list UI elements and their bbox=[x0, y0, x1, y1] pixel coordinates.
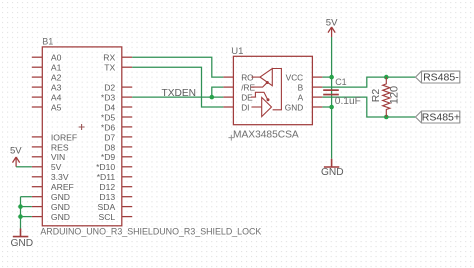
svg-text:C1: C1 bbox=[335, 77, 347, 87]
svg-text:D4: D4 bbox=[104, 102, 115, 112]
svg-text:5V: 5V bbox=[51, 162, 62, 172]
svg-text:RS485-: RS485- bbox=[423, 72, 459, 84]
junction GND rail / pin 3 bbox=[18, 214, 23, 219]
wire GND rail vertical bbox=[20, 197, 22, 229]
svg-text:*D10: *D10 bbox=[96, 162, 115, 172]
net flag RS485- bbox=[416, 71, 460, 83]
wire TXDEN branch to /RE bbox=[212, 87, 224, 97]
svg-text:*D9: *D9 bbox=[101, 152, 116, 162]
wire TX to DI bbox=[132, 67, 223, 107]
resistor R2 bbox=[383, 77, 390, 117]
wire GND pin 2 bbox=[21, 206, 32, 208]
U1 DE enable line and dot bbox=[251, 92, 270, 101]
svg-text:RX: RX bbox=[103, 53, 115, 63]
wire A to RS485+ bbox=[322, 97, 415, 117]
svg-text:*D3: *D3 bbox=[101, 93, 116, 103]
capacitor C1 plates bbox=[323, 89, 339, 95]
svg-text:0.1uF: 0.1uF bbox=[335, 96, 361, 107]
svg-text:TXDEN: TXDEN bbox=[162, 88, 197, 99]
svg-text:RS485+: RS485+ bbox=[422, 111, 460, 123]
B1 right pin name labels bbox=[96, 53, 115, 222]
junction U1 GND / rail bbox=[329, 105, 334, 110]
supply 5V symbol (top right) bbox=[328, 27, 335, 37]
svg-text:ARDUINO_UNO_R3_SHIELDUNO_R3_SH: ARDUINO_UNO_R3_SHIELDUNO_R3_SHIELD_LOCK bbox=[40, 226, 261, 236]
B1 origin cross bbox=[79, 124, 85, 130]
svg-text:A5: A5 bbox=[51, 102, 62, 112]
U1 driver buffer triangle bbox=[252, 97, 272, 116]
svg-text:GND: GND bbox=[51, 202, 70, 212]
wire GND pin 1 bbox=[21, 196, 32, 198]
svg-text:GND: GND bbox=[51, 212, 70, 222]
wire B to RS485- bbox=[322, 77, 415, 87]
svg-text:B1: B1 bbox=[42, 37, 53, 47]
wire GND pin 3 bbox=[21, 216, 32, 218]
junction GND rail / pin 2 bbox=[18, 204, 23, 209]
svg-text:D12: D12 bbox=[99, 182, 115, 192]
wire VCC to rail bbox=[322, 76, 331, 78]
svg-text:A: A bbox=[298, 93, 304, 103]
svg-text:A3: A3 bbox=[51, 83, 62, 93]
svg-text:5V: 5V bbox=[10, 146, 22, 157]
B1 left pin name labels bbox=[51, 53, 77, 222]
ground symbol (left) bbox=[13, 229, 28, 237]
svg-text:IOREF: IOREF bbox=[51, 132, 77, 142]
junction R2 top bbox=[384, 75, 389, 80]
svg-text:A2: A2 bbox=[51, 73, 62, 83]
svg-text:D13: D13 bbox=[99, 192, 115, 202]
svg-text:GND: GND bbox=[51, 192, 70, 202]
svg-text:*D5: *D5 bbox=[101, 112, 116, 122]
IC U1 MAX3485CSA box bbox=[223, 56, 322, 124]
svg-text:GND: GND bbox=[285, 102, 303, 112]
wire U1 GND to rail bbox=[322, 106, 331, 108]
svg-text:D2: D2 bbox=[104, 83, 115, 93]
svg-text:SCL: SCL bbox=[98, 212, 115, 222]
svg-text:AREF: AREF bbox=[51, 182, 74, 192]
svg-text:*D6: *D6 bbox=[101, 122, 116, 132]
svg-text:D7: D7 bbox=[104, 132, 115, 142]
svg-text:A1: A1 bbox=[51, 63, 62, 73]
wire 5V rail bbox=[331, 37, 333, 159]
junction VCC / rail bbox=[329, 75, 334, 80]
U1 internal link wire bbox=[272, 69, 281, 110]
U1 origin cross bbox=[228, 135, 234, 141]
junction TXDEN bbox=[210, 95, 215, 100]
wire TXDEN *D3 to DE bbox=[132, 96, 223, 98]
wire 5V to B1 5V pin bbox=[16, 166, 32, 168]
component B1 ARDUINO_UNO_R3_SHIELD bbox=[32, 47, 132, 226]
junction R2 bottom bbox=[384, 115, 389, 120]
net flag RS485+ bbox=[416, 111, 461, 123]
svg-text:VIN: VIN bbox=[51, 152, 65, 162]
U1 receiver buffer triangle bbox=[252, 69, 273, 86]
svg-text:SDA: SDA bbox=[98, 202, 116, 212]
svg-text:DI: DI bbox=[241, 102, 249, 112]
svg-text:VCC: VCC bbox=[286, 73, 304, 83]
wire RX to RO bbox=[132, 57, 223, 77]
svg-text:MAX3485CSA: MAX3485CSA bbox=[233, 130, 299, 141]
svg-text:R2: R2 bbox=[370, 89, 382, 103]
svg-text:120: 120 bbox=[389, 86, 401, 104]
svg-text:RES: RES bbox=[51, 142, 69, 152]
svg-text:A4: A4 bbox=[51, 93, 62, 103]
ground symbol (right) bbox=[324, 159, 339, 167]
svg-text:D8: D8 bbox=[104, 142, 115, 152]
svg-text:5V: 5V bbox=[326, 17, 338, 28]
svg-text:TX: TX bbox=[104, 63, 115, 73]
svg-text:A0: A0 bbox=[51, 53, 62, 63]
svg-text:B: B bbox=[298, 83, 304, 93]
svg-text:GND: GND bbox=[10, 238, 33, 249]
svg-text:GND: GND bbox=[321, 167, 344, 178]
svg-text:*D11: *D11 bbox=[97, 172, 116, 182]
supply 5V symbol (left) bbox=[13, 157, 20, 167]
svg-text:3.3V: 3.3V bbox=[51, 172, 69, 182]
svg-text:U1: U1 bbox=[231, 46, 243, 57]
U1 /RE enable line and bubble bbox=[251, 81, 269, 87]
